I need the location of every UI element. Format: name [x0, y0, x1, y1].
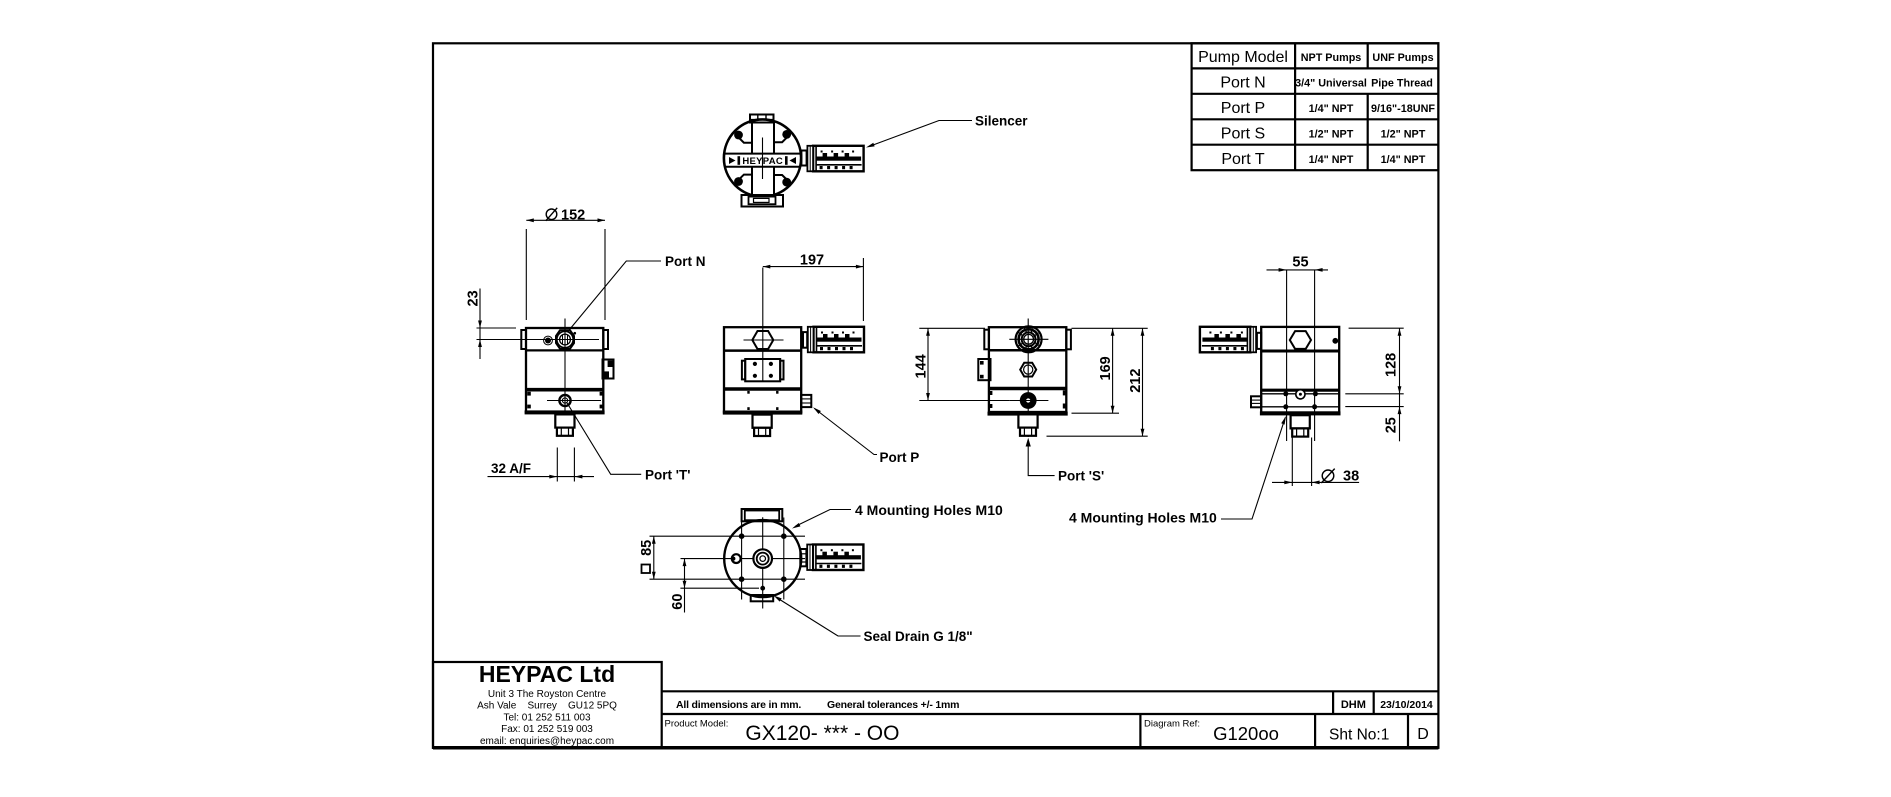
svg-text:D: D — [1417, 726, 1429, 743]
svg-text:85: 85 — [639, 540, 655, 556]
company box — [433, 662, 662, 748]
port N leader — [568, 261, 662, 332]
center shaft boss — [753, 549, 772, 568]
svg-text:23/10/2014: 23/10/2014 — [1380, 699, 1433, 711]
cross boss horizontal strip — [724, 154, 801, 167]
svg-text:Sht No:1: Sht No:1 — [1329, 727, 1389, 744]
svg-text:All dimensions are in mm.: All dimensions are in mm. — [676, 699, 801, 711]
svg-text:General tolerances +/- 1mm: General tolerances +/- 1mm — [827, 699, 959, 711]
svg-text:4 Mounting Holes M10: 4 Mounting Holes M10 — [1069, 510, 1217, 526]
svg-text:Ash Vale Surrey GU12 5PQ: Ash Vale Surrey GU12 5PQ — [477, 701, 617, 712]
top view pump circle — [724, 119, 801, 196]
svg-text:38: 38 — [1343, 469, 1359, 485]
svg-text:G120oo: G120oo — [1213, 723, 1279, 744]
title block verticals row1 — [1332, 691, 1334, 714]
port S leader with arrow — [1028, 446, 1054, 476]
dim 128 line with arrows — [1399, 328, 1401, 441]
svg-text:128: 128 — [1384, 353, 1400, 377]
svg-text:DHM: DHM — [1341, 699, 1366, 711]
svg-text:1/4" NPT: 1/4" NPT — [1381, 154, 1426, 166]
view1 plug dot — [545, 338, 551, 344]
corner bolts top view — [734, 131, 743, 140]
view2 hex h-centerline — [744, 339, 784, 341]
table outline — [1192, 43, 1439, 170]
dim 25 outside arrows — [1398, 407, 1402, 415]
view3 left bracket — [978, 359, 990, 380]
view1 thick divider — [526, 388, 603, 392]
view4 hex head — [1290, 331, 1311, 349]
view2 vertical centerline — [762, 268, 764, 382]
view1 port N circles — [557, 331, 573, 347]
svg-text:Unit 3 The Royston Centre: Unit 3 The Royston Centre — [488, 689, 607, 700]
dim 169 bottom ext line — [1072, 412, 1120, 414]
view2 port P fitting — [801, 395, 811, 407]
svg-text:Tel: 01 252 511 003: Tel: 01 252 511 003 — [503, 713, 591, 724]
svg-text:HEYPAC Ltd: HEYPAC Ltd — [479, 661, 615, 687]
svg-text:55: 55 — [1292, 254, 1308, 270]
dim 55 line with outside arrows — [1267, 269, 1329, 271]
vertical centerline top view — [762, 138, 764, 180]
svg-text:3/4" Universal: 3/4" Universal — [1295, 78, 1367, 90]
title block verticals row2 — [1139, 714, 1141, 748]
view3 right ear — [1066, 330, 1071, 350]
view2 hex head — [752, 331, 773, 349]
svg-text:144: 144 — [914, 354, 930, 378]
dim 169 line with arrows — [1112, 328, 1114, 413]
dim 38 text — [1322, 470, 1334, 482]
svg-text:Pump Model: Pump Model — [1198, 49, 1288, 66]
quadrant pocket lines BL — [737, 175, 752, 182]
svg-text:1/2" NPT: 1/2" NPT — [1381, 128, 1426, 140]
silencer adapter (bottom view) — [800, 549, 806, 566]
mounting bolts — [739, 533, 745, 539]
port P leader with arrow — [815, 409, 878, 455]
table column line 1 — [1294, 43, 1296, 170]
view3 port N centerlines — [1009, 338, 1048, 340]
view4 body outline — [1261, 327, 1339, 413]
svg-text:152: 152 — [561, 208, 585, 224]
port T leader — [567, 402, 642, 474]
svg-text:Port N: Port N — [665, 254, 706, 269]
svg-text:Diagram Ref:: Diagram Ref: — [1144, 719, 1200, 730]
left port hole — [732, 554, 741, 563]
top mounting tab — [750, 115, 774, 123]
svg-text:Port P: Port P — [1221, 100, 1265, 117]
view1 port T knurled circle — [559, 395, 570, 406]
dim 85 line with arrows — [653, 536, 655, 579]
svg-text:9/16"-18UNF: 9/16"-18UNF — [1371, 103, 1435, 115]
silencer (bottom view) — [807, 544, 863, 570]
view4 bolt row lines — [1261, 394, 1339, 407]
seal drain hole — [760, 586, 765, 591]
svg-text:email: enquiries@heypac.com: email: enquiries@heypac.com — [480, 736, 614, 747]
view2 bottom fitting — [753, 415, 772, 436]
view1 left ear — [521, 330, 526, 349]
view1 vertical centerline — [564, 319, 566, 422]
dim 38 ext lines — [1292, 438, 1311, 487]
view2 head parting line — [724, 349, 801, 352]
mounting holes leader (right) — [1221, 418, 1285, 520]
bottom view top tab — [742, 509, 783, 521]
view2 plate bolts — [753, 362, 757, 366]
svg-text:Port S: Port S — [1221, 125, 1265, 142]
dim 212 bottom ext line — [1047, 435, 1148, 437]
svg-text:23: 23 — [466, 290, 482, 306]
view2 body outline — [724, 327, 801, 412]
svg-text:Port T: Port T — [1221, 151, 1265, 168]
view3 body outline — [989, 327, 1066, 412]
svg-text:NPT Pumps: NPT Pumps — [1301, 52, 1362, 64]
drawing frame border — [433, 43, 1438, 748]
svg-text:Port 'T': Port 'T' — [645, 468, 690, 483]
view3 vertical centerline — [1027, 319, 1029, 438]
view3 thick divider — [989, 387, 1066, 390]
svg-text:Fax: 01 252 519 003: Fax: 01 252 519 003 — [501, 724, 593, 735]
svg-text:1/4" NPT: 1/4" NPT — [1309, 103, 1354, 115]
dim 32 A/F ext lines — [557, 448, 574, 482]
dim 152 ext lines — [526, 229, 605, 320]
view4 bolts — [1283, 391, 1288, 396]
bottom view circle — [724, 520, 801, 597]
table row line 4 — [1192, 144, 1439, 146]
view4 head parting line — [1261, 350, 1339, 353]
view1 port N h-centerline — [477, 339, 600, 341]
silencer (top view) — [807, 146, 863, 172]
view4 silencer (mirrored) — [1200, 327, 1256, 353]
svg-text:25: 25 — [1384, 417, 1400, 433]
dim 197 right ext line — [862, 258, 864, 321]
mounting holes leader (left) — [795, 510, 851, 527]
table row line 1 — [1192, 67, 1439, 69]
svg-text:Port 'S': Port 'S' — [1058, 468, 1104, 483]
svg-text:Pipe Thread: Pipe Thread — [1371, 78, 1433, 90]
view1 port N octagon — [556, 330, 574, 348]
view3 port S boss — [1020, 392, 1037, 409]
dim 23 ext lines — [477, 327, 517, 329]
table column line 2 (skips merged Port N row) — [1367, 43, 1369, 170]
silencer adapter (top view) — [801, 151, 806, 166]
HEYPAC nameplate logo — [729, 156, 796, 167]
svg-text:1/4" NPT: 1/4" NPT — [1309, 154, 1354, 166]
svg-text:Silencer: Silencer — [975, 114, 1028, 129]
dim 144 ext lines — [919, 328, 1009, 400]
svg-text:UNF Pumps: UNF Pumps — [1372, 52, 1433, 64]
view4 bottom fitting — [1291, 415, 1310, 436]
view1 body outline — [526, 328, 603, 412]
svg-text:GX120- *** - OO: GX120- *** - OO — [745, 722, 899, 745]
view1 port T h-centerline — [547, 400, 601, 402]
quadrant pocket lines TR — [774, 136, 789, 143]
svg-text:HEYPAC: HEYPAC — [742, 156, 783, 167]
view4 port P fitting left — [1251, 396, 1261, 407]
title block row lines — [662, 690, 1439, 692]
dim 197 line with arrows — [763, 266, 864, 268]
view3 head parting line — [989, 349, 1066, 352]
dim 32 A/F line with outside arrows — [488, 476, 595, 478]
view2 silencer adapter — [803, 332, 807, 348]
view1 side tab (port P housing) — [603, 360, 614, 379]
dim 152 text — [546, 209, 557, 220]
view3 left ear — [984, 330, 989, 350]
view3 knurled port N — [1016, 326, 1042, 352]
view3 bottom fitting — [1018, 414, 1037, 435]
view1 base flange — [525, 410, 605, 414]
dim 128 top ext line — [1349, 327, 1404, 329]
view4 right edge dot — [1332, 338, 1338, 344]
dim 23 vertical line — [479, 289, 481, 360]
bolt grid lines — [742, 518, 784, 600]
dim 152 line with arrows — [526, 219, 605, 221]
dim 55 ext lines through body — [1287, 270, 1315, 441]
dim 38 line with outside arrows — [1272, 481, 1359, 483]
dim 212 line with arrows — [1142, 328, 1144, 436]
view3 corner marks — [1063, 390, 1067, 395]
square symbol — [642, 565, 651, 574]
quadrant pocket lines TL — [737, 136, 752, 143]
view2 tick marks — [747, 391, 749, 394]
cross boss vertical bar — [752, 121, 774, 195]
view4 base flange — [1260, 411, 1341, 415]
seal drain leader — [777, 598, 861, 637]
svg-text:212: 212 — [1128, 369, 1144, 393]
center crosshair — [681, 517, 806, 608]
svg-text:4 Mounting Holes M10: 4 Mounting Holes M10 — [855, 502, 1003, 518]
svg-text:Port P: Port P — [880, 450, 920, 465]
dim 144 line with arrows — [927, 328, 929, 400]
svg-text:60: 60 — [670, 594, 686, 610]
view3 base flange — [988, 412, 1068, 416]
dim 60 line with arrows — [684, 559, 686, 613]
dim 128/25 ext lines right — [1345, 394, 1403, 407]
svg-text:Product Model:: Product Model: — [665, 719, 729, 730]
view2 base flange — [723, 411, 803, 415]
view1 right ear — [603, 330, 608, 349]
silencer leader line — [869, 121, 972, 147]
svg-text:1/2" NPT: 1/2" NPT — [1309, 128, 1354, 140]
view2 manifold plate — [745, 359, 780, 381]
view4 thick divider — [1261, 389, 1339, 392]
dim 169/212 top ext line — [1072, 327, 1148, 329]
bottom mounting tab — [742, 195, 784, 207]
view4 center boss — [1296, 390, 1305, 399]
view4 silencer adapter — [1257, 333, 1261, 349]
bottom view bottom tab — [751, 595, 774, 601]
table row line 3 — [1192, 118, 1439, 120]
svg-text:197: 197 — [800, 253, 824, 269]
view2 thick divider — [724, 387, 801, 390]
table row line 2 — [1192, 93, 1439, 95]
svg-text:169: 169 — [1098, 356, 1114, 380]
frame bottom thick line — [433, 746, 1438, 750]
quadrant pocket lines BR — [774, 175, 789, 182]
view1 corner marks — [527, 392, 531, 396]
view1 head parting line — [526, 349, 603, 351]
view1 bottom fitting — [555, 414, 574, 435]
view3 center hex socket — [1020, 363, 1036, 377]
svg-text:Port N: Port N — [1220, 75, 1265, 92]
svg-text:Seal Drain G 1/8": Seal Drain G 1/8" — [864, 629, 973, 644]
svg-text:32 A/F: 32 A/F — [491, 461, 531, 476]
view2 silencer — [808, 327, 864, 353]
